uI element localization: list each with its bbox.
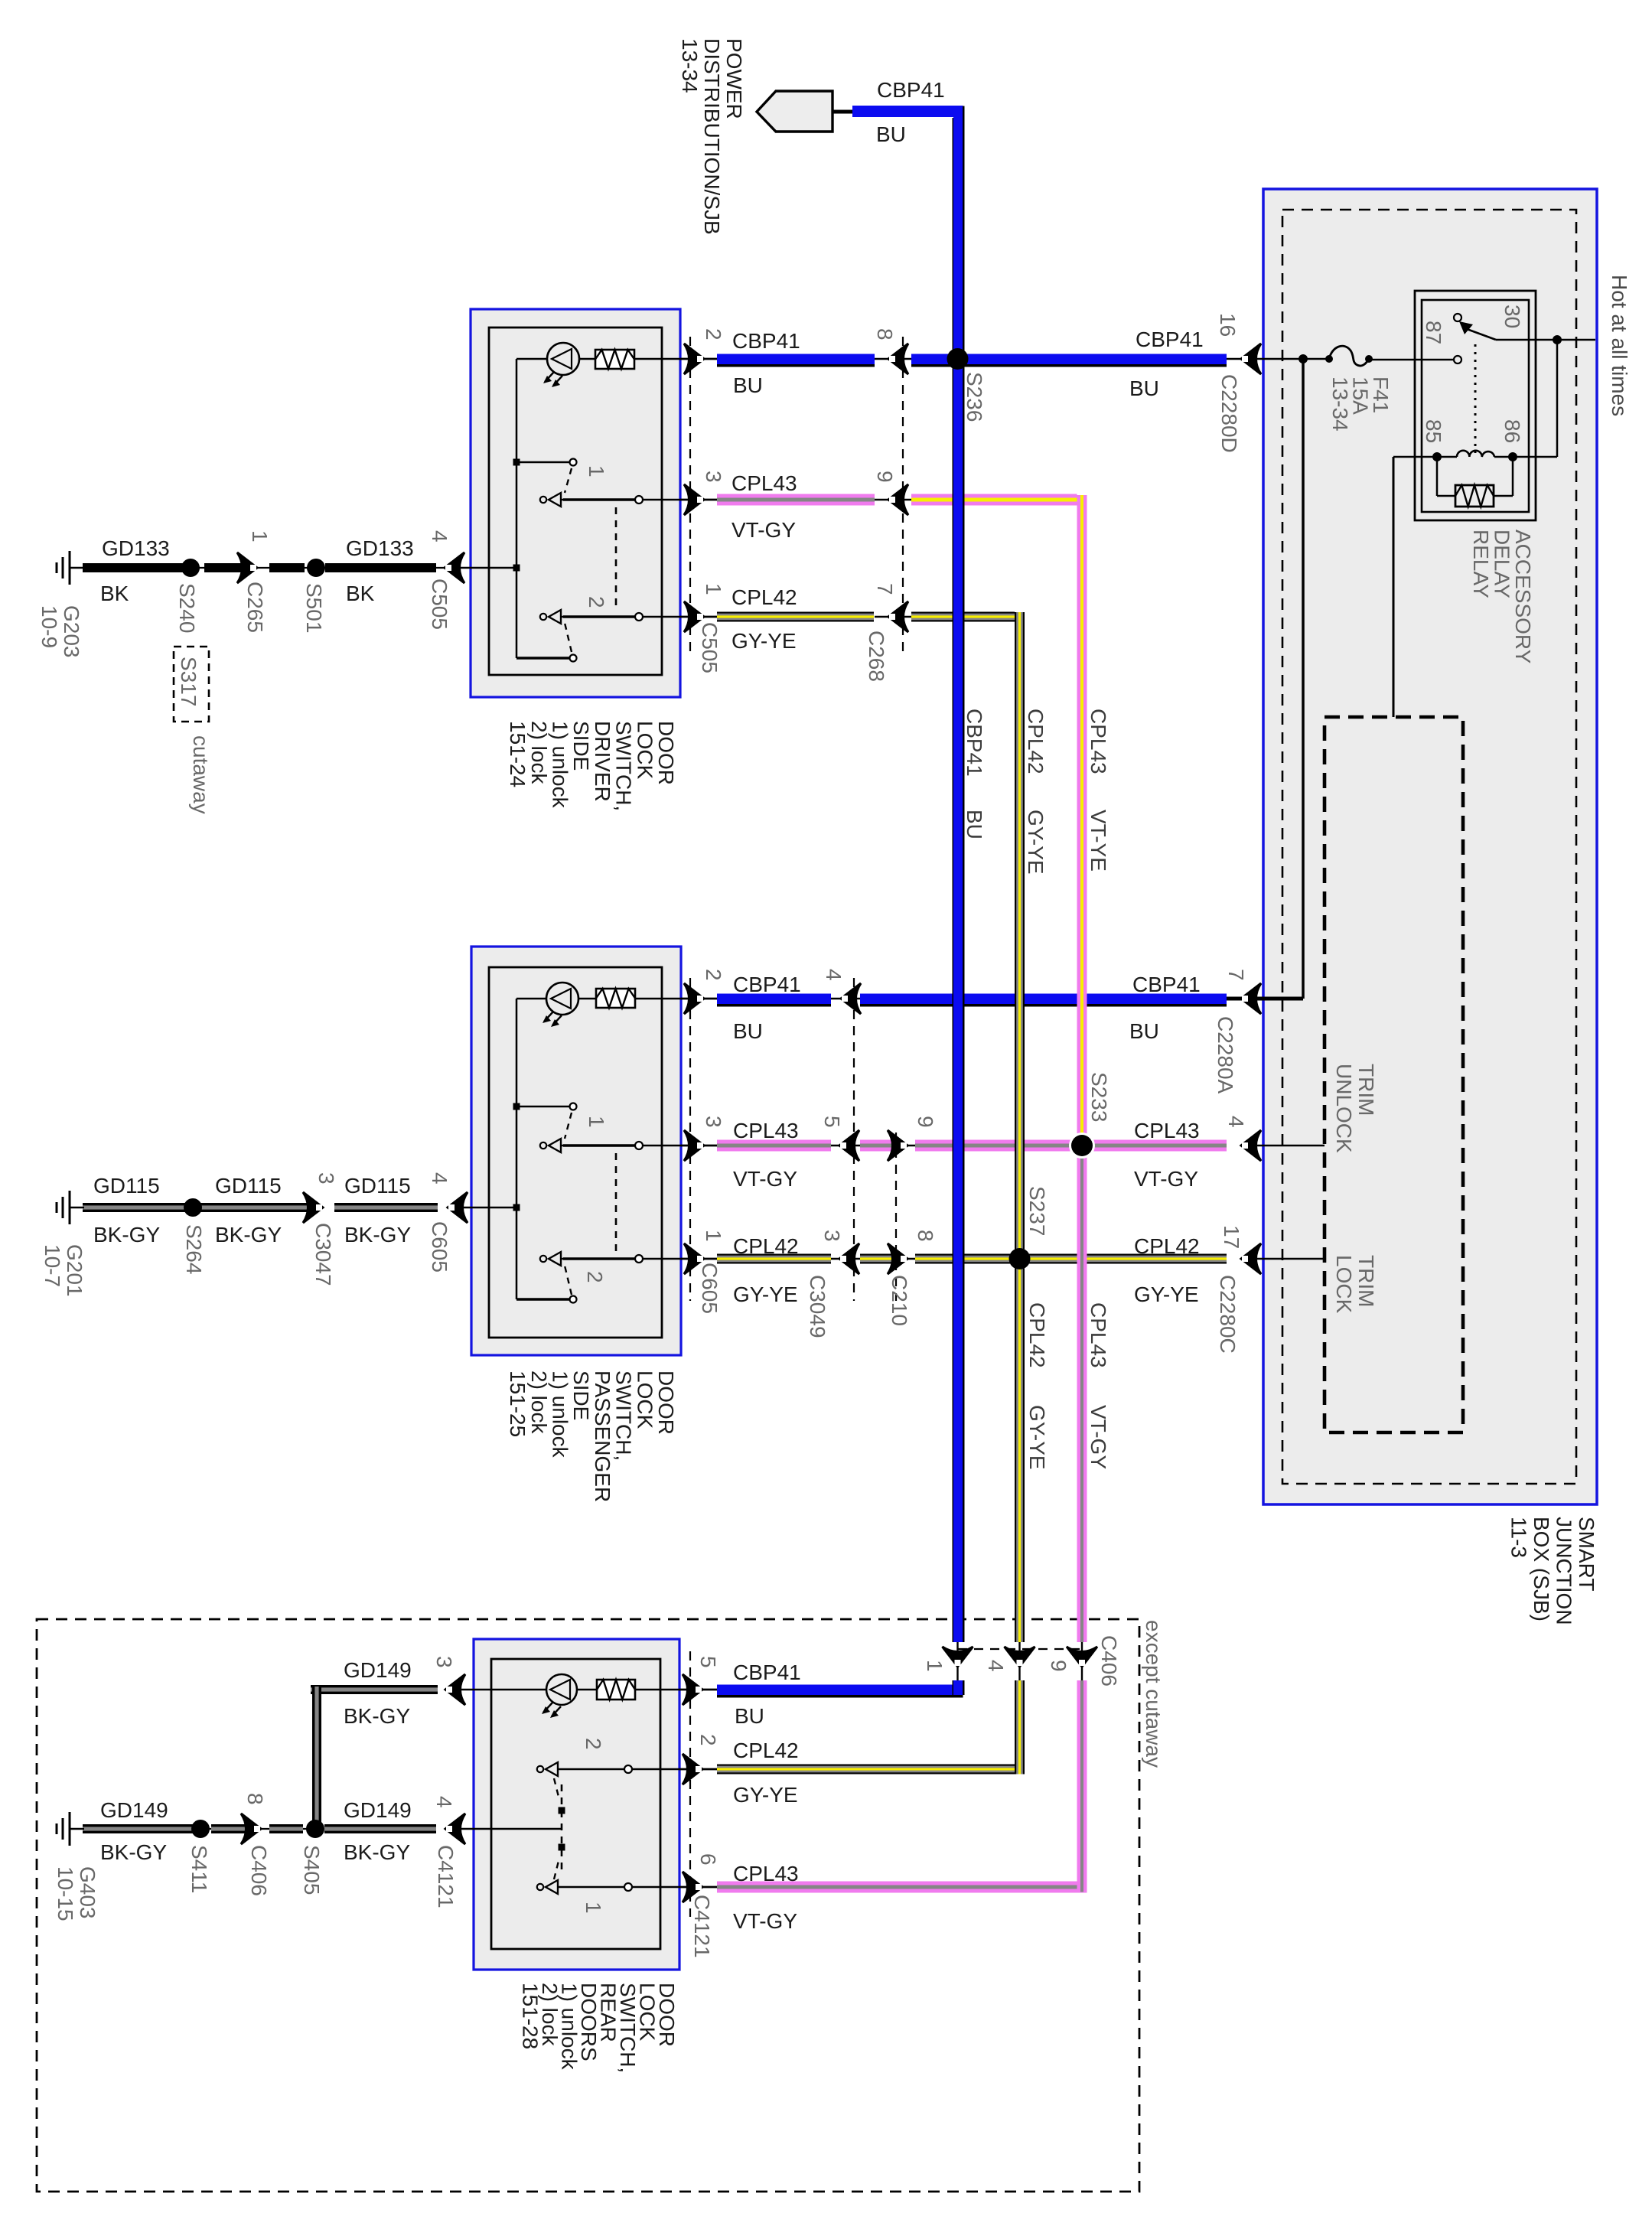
- svg-text:9: 9: [914, 1116, 937, 1128]
- svg-text:C605: C605: [698, 1263, 722, 1314]
- wire CPL43 VT-YE riser above S233: [1077, 495, 1087, 1146]
- pin 4 arrow C406 CPL42: [1005, 1647, 1035, 1667]
- splice S237: [1009, 1248, 1031, 1269]
- driver switch bottom line: [516, 657, 570, 659]
- svg-text:GY-YE: GY-YE: [1134, 1282, 1199, 1306]
- rear switch wiper 2: [537, 1766, 543, 1772]
- wire CBP41 BU passenger seg: [717, 994, 831, 1005]
- wire passenger switch line2 out: [562, 1258, 717, 1260]
- passenger switch wiper 2: [540, 1256, 546, 1262]
- relay pin30 line to hot feed: [1496, 339, 1595, 341]
- svg-text:CPL42: CPL42: [733, 1739, 799, 1762]
- fuse feed junction dot: [1298, 354, 1308, 363]
- wire CPL43 VT-GY to C2280A: [915, 1140, 1227, 1152]
- svg-text:PASSENGER: PASSENGER: [591, 1370, 614, 1502]
- svg-text:CPL42: CPL42: [1025, 1302, 1049, 1368]
- wire GD149 BK-GY S405 to C4121: [324, 1824, 436, 1833]
- pin 1 arrow driver C505: [684, 601, 704, 632]
- except-cutaway dashed box: [37, 1619, 1139, 2192]
- svg-text:S236: S236: [963, 372, 986, 422]
- svg-text:GD133: GD133: [102, 536, 170, 560]
- relay hot feed junction dot: [1553, 335, 1562, 344]
- wire driver gnd pin4 in: [451, 567, 516, 569]
- svg-text:C265: C265: [243, 582, 267, 633]
- svg-text:POWER: POWER: [722, 38, 746, 119]
- svg-text:GD149: GD149: [344, 1798, 412, 1822]
- driver switch pole link dash: [615, 507, 617, 611]
- svg-text:LOCK: LOCK: [633, 721, 657, 780]
- pin 1 arrow passenger C605: [684, 1243, 704, 1274]
- passenger switch blade dash 2: [565, 1266, 572, 1295]
- svg-text:BK-GY: BK-GY: [344, 1840, 410, 1864]
- svg-text:CBP41: CBP41: [963, 709, 986, 777]
- wire rear lamp to resistor: [577, 1689, 597, 1691]
- wire box edge leads rear: [679, 1689, 717, 1691]
- relay resistor: [1455, 485, 1494, 507]
- passenger switch pivot square top: [513, 1103, 520, 1110]
- svg-text:LOCK: LOCK: [1332, 1255, 1356, 1314]
- svg-text:1) unlock: 1) unlock: [549, 721, 572, 809]
- svg-text:SIDE: SIDE: [569, 1370, 593, 1420]
- svg-text:3: 3: [314, 1172, 338, 1185]
- passenger switch common line: [516, 999, 518, 1299]
- svg-text:4: 4: [984, 1660, 1008, 1672]
- connector C268 dashed line: [902, 337, 904, 657]
- svg-text:CBP41: CBP41: [1132, 973, 1201, 996]
- pin 3 arrow C3049: [839, 1243, 859, 1274]
- svg-text:3: 3: [702, 1116, 725, 1128]
- svg-text:G203: G203: [60, 605, 83, 658]
- passenger switch inner box: [489, 967, 662, 1338]
- driver switch contact line top: [516, 461, 570, 464]
- svg-text:8: 8: [243, 1793, 267, 1805]
- rear illumination resistor: [597, 1680, 635, 1700]
- pin 5 arrow C3049: [839, 1130, 859, 1161]
- svg-text:1: 1: [702, 1230, 725, 1242]
- relay pin87 wire to fuse: [1369, 359, 1454, 361]
- svg-text:GD149: GD149: [100, 1798, 168, 1822]
- power distribution flag: [757, 91, 833, 132]
- wire CBP41 BU main riser upper: [953, 106, 963, 1643]
- svg-text:CPL43: CPL43: [1134, 1119, 1200, 1142]
- wire fuse feed junction vertical: [1302, 359, 1305, 999]
- passenger switch wiper 1: [540, 1142, 546, 1149]
- splice S405: [306, 1820, 324, 1838]
- svg-text:cutaway: cutaway: [189, 735, 213, 814]
- svg-text:SIDE: SIDE: [569, 721, 593, 771]
- wire CBP41 BU driver to C2280D: [911, 354, 1227, 365]
- passenger switch contact line top: [516, 1106, 570, 1108]
- passenger switch circle mid1: [635, 1142, 643, 1149]
- svg-text:ACCESSORY: ACCESSORY: [1511, 530, 1535, 664]
- svg-text:C4121: C4121: [690, 1895, 714, 1958]
- svg-text:VT-GY: VT-GY: [1087, 1405, 1110, 1469]
- svg-text:G403: G403: [76, 1866, 99, 1919]
- svg-text:10-9: 10-9: [37, 605, 61, 648]
- passenger gnd junction square: [513, 1204, 520, 1211]
- svg-text:3: 3: [702, 471, 725, 483]
- rear switch circle mid2: [624, 1765, 632, 1773]
- wire GD149 BK-GY dashed segs at C406: [211, 1824, 246, 1833]
- wire box edge leads passenger: [681, 998, 717, 1000]
- svg-text:9: 9: [873, 471, 897, 483]
- svg-text:151-24: 151-24: [506, 721, 529, 787]
- svg-text:CBP41: CBP41: [877, 78, 945, 102]
- rear switch blade dash 1: [554, 1858, 559, 1879]
- driver switch wiper2 line thick: [563, 615, 639, 618]
- connector C210 dashed line: [895, 1133, 897, 1301]
- driver illumination resistor: [595, 350, 634, 369]
- svg-text:S405: S405: [300, 1845, 324, 1895]
- svg-text:TRIM: TRIM: [1354, 1255, 1378, 1307]
- rear switch blade dash 2: [554, 1778, 559, 1800]
- svg-text:1: 1: [702, 583, 725, 595]
- wire CPL42 GY-YE main riser lower: [1015, 1680, 1025, 1775]
- svg-text:30: 30: [1500, 305, 1524, 328]
- wire rear switch line2 out: [557, 1768, 717, 1771]
- rear illumination lamp: [546, 1674, 577, 1705]
- pin 17 arrow C2280C: [1241, 1243, 1261, 1274]
- driver switch wiper 1: [540, 497, 546, 503]
- svg-text:4: 4: [1224, 1116, 1248, 1128]
- svg-text:C4121: C4121: [434, 1845, 458, 1908]
- svg-text:S240: S240: [175, 583, 199, 633]
- svg-text:BK-GY: BK-GY: [100, 1840, 167, 1864]
- fuse F41 symbol: [1325, 355, 1333, 363]
- svg-text:BK-GY: BK-GY: [93, 1223, 160, 1247]
- wire C406 blue gap: [956, 1642, 958, 1680]
- passenger switch pole link dash: [615, 1153, 617, 1254]
- wire GD115 BK-GY C3047 to C605: [334, 1203, 438, 1212]
- svg-text:GY-YE: GY-YE: [733, 1783, 798, 1807]
- relay switch contact 87a circle: [1454, 314, 1461, 321]
- svg-text:BU: BU: [876, 122, 906, 146]
- wire CPL43 VT-GY riser below S233: [1077, 1146, 1087, 1642]
- relay actuator dotted link: [1474, 344, 1477, 453]
- pin 1 arrow C406 blue: [943, 1647, 973, 1667]
- pin 3 arrow passenger C605: [684, 1130, 704, 1161]
- svg-text:7: 7: [1224, 969, 1248, 981]
- splice S236: [947, 348, 969, 370]
- svg-text:CPL43: CPL43: [1087, 1302, 1110, 1368]
- svg-text:2) lock: 2) lock: [527, 721, 551, 784]
- passenger switch blade dash 1: [565, 1113, 572, 1139]
- pin 5 arrow rear C4121: [683, 1674, 702, 1705]
- wire rear gnd pin4 in: [451, 1828, 562, 1830]
- wire rear resistor out pin5: [635, 1689, 717, 1691]
- svg-text:DOOR: DOOR: [654, 1370, 678, 1435]
- svg-text:151-28: 151-28: [519, 1983, 543, 2049]
- svg-text:2: 2: [702, 328, 725, 341]
- wire passenger CBP41 gap C3049: [831, 998, 860, 1000]
- splice S233: [1071, 1135, 1093, 1156]
- connector C3049 dashed line: [853, 978, 855, 1301]
- pin 4 arrow passenger gnd C605: [448, 1192, 468, 1223]
- pin 9 arrow C406 CPL43: [1067, 1647, 1097, 1667]
- svg-text:DELAY: DELAY: [1491, 530, 1514, 598]
- wire CPL42 GY-YE driver seg: [717, 612, 874, 622]
- relay switch arm: [1467, 329, 1496, 340]
- wire passenger CPL43 gaps: [831, 1145, 860, 1147]
- wire GD133 BK S501 to C505: [325, 563, 436, 572]
- driver switch pivot square top: [513, 459, 520, 466]
- relay coil left lead: [1393, 456, 1457, 458]
- svg-text:C505: C505: [428, 578, 451, 630]
- wire CPL43 VT-YE driver corner seg: [911, 494, 1077, 506]
- SJB inner dashed border: [1282, 210, 1576, 1484]
- svg-text:CPL43: CPL43: [733, 1119, 799, 1142]
- svg-text:1: 1: [585, 1116, 608, 1128]
- svg-text:1: 1: [582, 1902, 605, 1914]
- pin 16 arrow C2280D: [1241, 344, 1261, 374]
- relay switch arm arrowhead: [1459, 321, 1473, 334]
- svg-text:S501: S501: [302, 583, 326, 633]
- svg-text:VT-GY: VT-GY: [733, 1167, 797, 1191]
- relay coil right lead: [1494, 456, 1557, 458]
- wire CPL42 GY-YE rear seg: [717, 1765, 1025, 1775]
- splice S411: [191, 1820, 210, 1838]
- svg-text:GY-YE: GY-YE: [1025, 1405, 1049, 1470]
- svg-text:Hot at all times: Hot at all times: [1608, 275, 1631, 416]
- svg-text:SWITCH,: SWITCH,: [612, 721, 636, 811]
- passenger switch circle mid2: [635, 1255, 643, 1263]
- svg-text:3: 3: [432, 1656, 456, 1668]
- svg-text:2: 2: [583, 1271, 607, 1283]
- svg-text:BK-GY: BK-GY: [215, 1223, 282, 1247]
- wire passenger gnd pin4 in: [453, 1207, 516, 1209]
- rear switch pivot squares: [559, 1807, 565, 1814]
- passenger lamp wire: [516, 998, 546, 1000]
- wire CPL42 GY-YE main riser upper: [1015, 612, 1025, 1642]
- relay coil dots: [1432, 452, 1442, 461]
- pin 8 arrow rear C406: [241, 1814, 261, 1844]
- rear switch inner box: [491, 1659, 660, 1949]
- wire CBP41 BU pentagon feed: [852, 106, 963, 117]
- svg-text:GD133: GD133: [346, 536, 414, 560]
- svg-text:C2280D: C2280D: [1217, 374, 1241, 453]
- accessory delay relay outer box: [1415, 291, 1536, 520]
- wire CPL43 VT-GY passenger seg: [717, 1140, 831, 1152]
- passenger door lock switch box: [471, 947, 681, 1355]
- driver switch contact circle top: [570, 459, 577, 466]
- svg-text:TRIM: TRIM: [1354, 1064, 1378, 1116]
- svg-text:7: 7: [873, 583, 897, 595]
- svg-text:BK-GY: BK-GY: [344, 1704, 410, 1728]
- wire passenger switch line1 out: [562, 1145, 717, 1147]
- wire GD149 BK-GY rear riser: [312, 1687, 321, 1829]
- wire rear switch line1 out: [557, 1886, 717, 1889]
- svg-text:151-25: 151-25: [506, 1370, 529, 1437]
- svg-text:VT-GY: VT-GY: [732, 518, 796, 542]
- wire GD133 BK ground to S240: [83, 563, 186, 572]
- svg-text:VT-GY: VT-GY: [1134, 1167, 1198, 1191]
- svg-text:CBP41: CBP41: [732, 329, 800, 353]
- passenger switch bottom line: [516, 1298, 570, 1300]
- passenger illumination resistor: [596, 989, 635, 1008]
- passenger switch wiper2 line thick: [563, 1257, 639, 1260]
- pin 4 arrow rear gnd C4121: [445, 1814, 465, 1844]
- wire driver CBP41 connector gap C268: [875, 358, 911, 360]
- driver switch blade dash 2: [565, 623, 572, 652]
- svg-text:GD115: GD115: [93, 1174, 160, 1198]
- svg-text:BOX (SJB): BOX (SJB): [1530, 1517, 1553, 1621]
- pin 7 arrow C2280A: [1241, 983, 1261, 1014]
- wire passenger CPL42 gap C210: [891, 1258, 915, 1260]
- wire CBP41 BU passenger to C2280A: [860, 994, 1227, 1005]
- svg-text:CPL42: CPL42: [1134, 1234, 1200, 1258]
- passenger switch bottom circle: [570, 1296, 577, 1303]
- connector C605 dashed line: [689, 978, 691, 1301]
- svg-text:5: 5: [820, 1116, 844, 1128]
- pin 2 arrow rear C4121: [683, 1754, 702, 1784]
- svg-text:SMART: SMART: [1575, 1517, 1598, 1592]
- connector C406 dashed line: [958, 1648, 1083, 1650]
- pin 9 arrow C210: [888, 1130, 907, 1161]
- wire passenger resistor out: [635, 998, 717, 1000]
- wire CPL43 VT-GY driver seg: [717, 494, 875, 506]
- driver switch wiper line thick: [563, 498, 639, 500]
- svg-text:C505: C505: [698, 622, 722, 673]
- wire driver switch line1 out: [562, 499, 717, 501]
- svg-text:C210: C210: [888, 1275, 911, 1326]
- svg-text:C268: C268: [865, 631, 888, 682]
- rear switch wiper 1: [537, 1884, 543, 1890]
- svg-text:4: 4: [822, 969, 846, 981]
- driver switch blade dash 1: [565, 468, 572, 493]
- svg-text:16: 16: [1216, 313, 1240, 337]
- pin 4 arrow driver gnd C505: [445, 552, 464, 583]
- svg-text:S233: S233: [1087, 1072, 1111, 1122]
- svg-text:G201: G201: [63, 1244, 86, 1297]
- svg-text:13-34: 13-34: [1328, 376, 1352, 432]
- svg-text:GD115: GD115: [344, 1174, 411, 1198]
- rear switch circle mid1: [624, 1883, 632, 1891]
- svg-text:CBP41: CBP41: [733, 973, 801, 996]
- passenger switch contact circle top: [570, 1103, 577, 1110]
- svg-text:4: 4: [428, 1172, 451, 1185]
- pin 4 arrow C3049 blue: [841, 983, 861, 1014]
- wire GD149 BK-GY rear top seg: [311, 1685, 438, 1694]
- svg-text:VT-GY: VT-GY: [733, 1909, 797, 1933]
- wire C406 CPL42 gap: [1018, 1642, 1020, 1680]
- svg-text:UNLOCK: UNLOCK: [1332, 1064, 1356, 1153]
- pin 2 arrow driver C505: [684, 344, 704, 374]
- relay resistor leads: [1436, 457, 1439, 496]
- relay hot feed vertical: [1556, 340, 1559, 457]
- svg-text:CPL42: CPL42: [1024, 709, 1048, 774]
- svg-text:17: 17: [1220, 1225, 1243, 1249]
- pin 1 arrow C265: [237, 552, 257, 583]
- svg-text:GY-YE: GY-YE: [732, 629, 797, 653]
- wire CPL43 VT-GY riser lower: [1077, 1680, 1087, 1892]
- wire box edge leads driver: [680, 358, 717, 360]
- svg-text:6: 6: [696, 1853, 720, 1866]
- svg-text:C2280A: C2280A: [1214, 1016, 1237, 1094]
- svg-text:RELAY: RELAY: [1469, 530, 1493, 598]
- svg-text:BK-GY: BK-GY: [344, 1223, 411, 1247]
- pin 3 arrow rear gnd C4121: [445, 1674, 465, 1705]
- wire GD133 BK dashed segs at C265: [204, 563, 242, 572]
- driver switch bottom circle: [570, 655, 577, 662]
- svg-text:CBP41: CBP41: [733, 1661, 801, 1684]
- ground G403: [70, 1828, 84, 1830]
- svg-text:C3049: C3049: [806, 1275, 829, 1338]
- svg-text:2: 2: [585, 596, 608, 608]
- connector C505 dashed line: [689, 337, 691, 657]
- driver switch inner box: [489, 328, 662, 675]
- svg-text:S411: S411: [187, 1845, 211, 1893]
- svg-text:GY-YE: GY-YE: [1024, 810, 1048, 875]
- svg-text:BU: BU: [733, 1019, 763, 1043]
- rear switch pole link dash: [561, 1784, 563, 1873]
- svg-text:JUNCTION: JUNCTION: [1553, 1517, 1576, 1625]
- accessory delay relay inner box: [1422, 300, 1529, 512]
- splice S501: [307, 559, 325, 577]
- svg-text:BU: BU: [1129, 1019, 1159, 1043]
- wire driver gnd underlay: [191, 567, 451, 569]
- ground G203: [70, 567, 84, 569]
- pin 9 arrow C268: [888, 484, 908, 515]
- svg-text:2: 2: [702, 969, 725, 981]
- wire junction to fuse: [1303, 358, 1329, 360]
- passenger illumination lamp: [546, 983, 578, 1015]
- svg-text:C406: C406: [1097, 1635, 1121, 1687]
- svg-text:CPL42: CPL42: [733, 1234, 799, 1258]
- wire CPL42 GY-YE C3049-C210 seg: [860, 1254, 891, 1264]
- relay coil: [1457, 451, 1494, 457]
- svg-text:1: 1: [248, 530, 272, 543]
- svg-text:VT-YE: VT-YE: [1087, 810, 1110, 872]
- svg-text:87: 87: [1422, 321, 1445, 344]
- S317 cutaway dashed box: [174, 647, 209, 722]
- svg-text:GD149: GD149: [344, 1658, 412, 1682]
- wire GD115 BK-GY S264 to C3047: [197, 1203, 312, 1212]
- svg-text:5: 5: [696, 1656, 720, 1668]
- wire passenger CPL43 gap C210: [891, 1145, 915, 1147]
- pin 7 arrow C268: [888, 601, 908, 632]
- svg-text:BU: BU: [963, 810, 986, 839]
- wire TRIM UNLOCK line: [1250, 1145, 1325, 1147]
- svg-text:1) unlock: 1) unlock: [549, 1370, 572, 1458]
- svg-text:C406: C406: [247, 1845, 271, 1896]
- svg-text:10-15: 10-15: [54, 1866, 77, 1921]
- splice S240: [181, 559, 200, 577]
- svg-text:4: 4: [428, 530, 451, 543]
- driver switch circle mid2: [635, 613, 643, 621]
- rear doors switch box: [474, 1639, 679, 1970]
- relay pin85 riser to trim box: [1393, 457, 1395, 717]
- svg-text:S264: S264: [182, 1224, 206, 1274]
- svg-text:DISTRIBUTION/SJB: DISTRIBUTION/SJB: [700, 38, 724, 235]
- svg-text:LOCK: LOCK: [633, 1370, 657, 1429]
- wire CPL43 VT-GY rear seg: [717, 1882, 1087, 1893]
- driver door lock switch box: [471, 309, 680, 697]
- svg-text:BK: BK: [346, 582, 375, 605]
- svg-text:S237: S237: [1025, 1186, 1049, 1236]
- svg-text:BU: BU: [735, 1704, 764, 1728]
- SJB smart junction box outline: [1263, 189, 1597, 1504]
- wire CPL42 GY-YE driver corner seg: [911, 612, 1015, 622]
- wire TRIM LOCK line: [1250, 1258, 1325, 1260]
- wire CBP41 BU main riser lower: [953, 1680, 954, 1695]
- svg-text:8: 8: [873, 328, 897, 341]
- svg-text:CPL42: CPL42: [732, 585, 797, 609]
- wire passenger lamp out: [579, 998, 596, 1000]
- svg-text:13-34: 13-34: [678, 38, 702, 93]
- pin 4 arrow C2280A: [1241, 1130, 1261, 1161]
- svg-text:2: 2: [582, 1738, 605, 1750]
- svg-text:DRIVER: DRIVER: [591, 721, 614, 802]
